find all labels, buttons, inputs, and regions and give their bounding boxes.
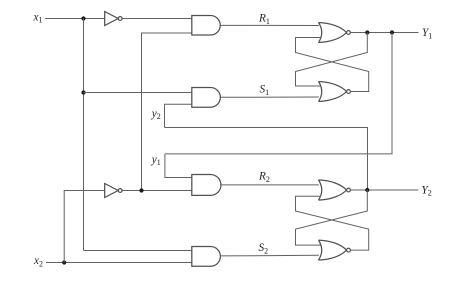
- junction dot x1 node A: [81, 16, 85, 20]
- svg-text:Y1: Y1: [422, 27, 432, 40]
- wire R1: A1 output to NOR N1 input 1: [220, 24, 318, 26]
- svg-text:x1: x1: [33, 11, 43, 24]
- wire y1 long feedback from Y1 node: [165, 33, 392, 154]
- wire x2' riser to AND1 input 2: [142, 33, 192, 191]
- inverter G2 bubble: [118, 189, 122, 193]
- NOR N2 bubble: [347, 90, 351, 94]
- wire N3 output to Y2: [351, 189, 419, 191]
- AND gate A3 (R2 = x2' y1): [192, 175, 221, 196]
- wire S2: A4 output to NOR N4 input 2: [220, 254, 318, 257]
- NOR gate N3 (latch 2 top): [319, 180, 347, 200]
- svg-text:Y2: Y2: [422, 184, 432, 197]
- junction dot x1 to AND2: [81, 90, 85, 94]
- wire latch2 feedback N3 out to N4 input 1: [296, 190, 368, 245]
- wire G1 output to AND1 input 1: [122, 18, 192, 20]
- NOR N3 bubble: [347, 188, 351, 192]
- wire y2 long feedback from Y2 node: [165, 128, 368, 191]
- wire N1 output to Y1: [351, 32, 419, 34]
- wire x1 to AND2 input 1: [84, 92, 192, 94]
- wire x2 lead to AND4 input 2: [46, 262, 192, 264]
- junction dot N1 output feedback: [365, 30, 369, 34]
- svg-text:S1: S1: [260, 84, 270, 97]
- NOR gate N4 (latch 2 bottom): [319, 240, 347, 260]
- svg-text:y1: y1: [151, 154, 161, 167]
- NOR N1 bubble: [347, 31, 351, 35]
- NOR gate N1 (latch 1 top): [319, 23, 347, 43]
- NOR N4 bubble: [347, 248, 351, 252]
- svg-text:y2: y2: [151, 108, 161, 121]
- AND gate A2 (S1 = x1 y2): [192, 88, 221, 108]
- inverter G1 bubble: [118, 17, 122, 21]
- svg-text:R1: R1: [258, 13, 270, 26]
- inverter G2 (x2 NOT): [105, 184, 118, 198]
- AND gate A4 (S2 = x1 x2): [192, 247, 221, 267]
- junction dot x2 node B: [62, 260, 66, 264]
- wire x2 riser to inverter G2: [64, 191, 104, 263]
- junction dot Y2 node: [365, 188, 369, 192]
- wire G2 output to AND3 input 2: [122, 190, 192, 192]
- wire x1 lead: [45, 18, 104, 20]
- wire latch1 feedback N2 out to N1 input 2: [296, 38, 369, 92]
- svg-text:S2: S2: [259, 242, 269, 255]
- wire latch2 feedback N4 out to N3 input 2: [296, 196, 369, 250]
- wire R2: A3 output to NOR N3 input 1: [220, 184, 318, 186]
- svg-text:x2: x2: [33, 255, 43, 268]
- junction dot x2' node: [139, 188, 143, 192]
- wire x1 to AND4 input 1: [84, 250, 192, 252]
- AND gate A1 (R1 = x1' x2'): [192, 16, 220, 36]
- inverter G1 (x1 NOT): [105, 12, 118, 26]
- NOR gate N2 (latch 1 bottom): [319, 82, 347, 102]
- wire S1: A2 output to NOR N2 input 2: [220, 96, 318, 98]
- wire x1 vertical branch: [83, 19, 85, 251]
- wire latch1 feedback N1 out to N2 input 1: [296, 33, 368, 87]
- wire y1 corner into AND3 input 1: [165, 154, 192, 178]
- wire y2 corner into AND2 input 2: [165, 104, 192, 127]
- svg-text:R2: R2: [258, 171, 270, 184]
- junction dot y1 tap: [390, 30, 394, 34]
